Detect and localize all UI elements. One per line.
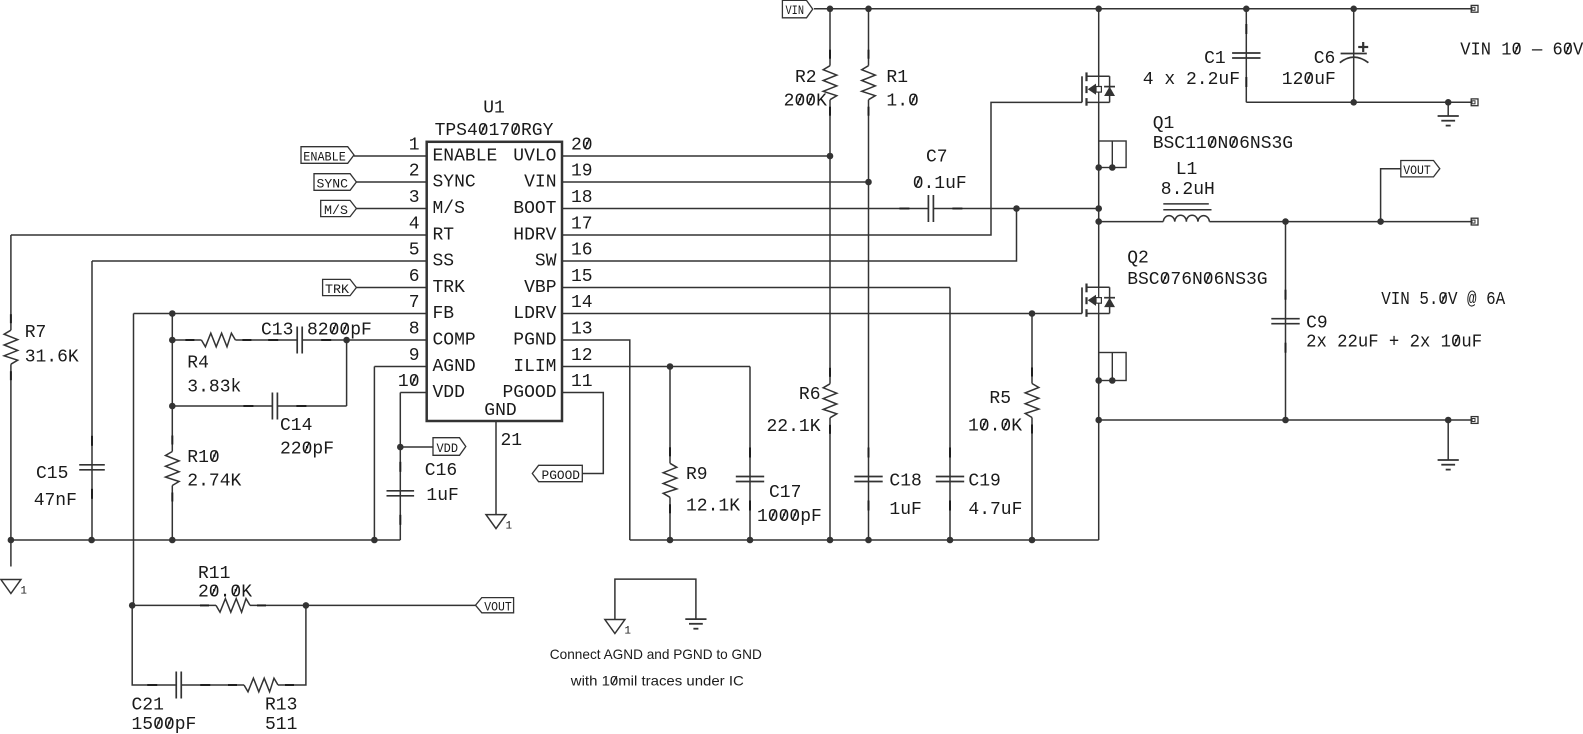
svg-text:C15: C15 [36,464,68,484]
U1 right pin numbers [571,136,593,393]
svg-text:BSC076N06NS3G: BSC076N06NS3G [1127,270,1267,290]
node input gnd junctions [1350,99,1451,106]
node AGND bus junctions [8,537,378,544]
ground AGND note [605,620,632,638]
svg-text:3: 3 [409,188,420,208]
svg-text:15: 15 [571,267,593,287]
port VOUT left [476,598,514,615]
svg-text:L1: L1 [1176,160,1198,180]
svg-text:4: 4 [409,215,420,235]
wire VIN pin 19 [562,181,869,183]
wire output ground stub [1447,420,1449,460]
svg-text:3.83k: 3.83k [187,378,241,398]
port VIN [782,0,812,18]
wire SYNC pin 2 [354,181,426,183]
wire C19 vertical [949,288,951,541]
annotation connect note [550,646,762,689]
wire Q1 source to Q2 drain [1098,102,1100,288]
wire PGOOD pin 11 to flag [562,393,603,474]
svg-text:FB: FB [433,304,455,324]
capacitor C18 [854,448,922,521]
port PGOOD [532,465,582,483]
svg-text:14: 14 [571,293,593,313]
wire AGND bus [11,539,400,541]
wire C7 to SW node [934,208,1099,210]
svg-text:VIN: VIN [524,173,556,193]
wire FB vertical R10 branch [171,314,173,541]
ground AGND 1 [1,580,28,598]
svg-text:7: 7 [409,293,420,313]
svg-text:VDD: VDD [437,442,459,456]
svg-text:VOUT: VOUT [484,601,512,615]
node VIN junctions [827,6,1357,13]
svg-text:C13: C13 [261,321,293,341]
svg-text:PGND: PGND [513,331,556,351]
port M/S [321,200,357,218]
svg-text:17: 17 [571,215,593,235]
capacitor C19 [936,448,1023,521]
svg-text:SS: SS [433,252,455,272]
wire Q1 drain [1098,9,1100,77]
svg-text:PGOOD: PGOOD [542,469,581,483]
resistor R7 [4,314,79,380]
wire UVLO pin 20 [562,155,830,157]
svg-text:R6: R6 [799,385,821,405]
svg-text:11: 11 [571,372,593,392]
wire Q2 source to rail [1098,314,1100,421]
wire pin 21 ground stub [495,421,497,514]
svg-text:21: 21 [501,431,523,451]
svg-text:SYNC: SYNC [317,178,349,192]
wire R11 feedback line [132,604,476,606]
node R11 junctions [129,602,309,609]
svg-text:M/S: M/S [324,204,348,218]
svg-text:C7: C7 [926,148,948,168]
port VDD [433,438,466,456]
svg-text:R13: R13 [265,696,297,716]
resistor R4 [185,333,251,397]
terminal VIN+ [1471,5,1478,12]
resistor R10 [166,436,242,502]
node COMP junction [343,337,350,344]
resistor R2 [784,50,837,116]
wire C17 vertical [749,367,751,541]
capacitor C15 [34,436,105,511]
capacitor C14 [243,393,334,460]
annotation output spec [1381,290,1505,310]
ground input bar [1438,116,1459,126]
svg-text:LDRV: LDRV [513,304,556,324]
svg-text:TRK: TRK [433,278,466,298]
U1 left pin numbers [398,136,420,393]
wire C13 to COMP node [302,339,346,341]
svg-text:VBP: VBP [524,278,556,298]
svg-text:4 x 2.2uF: 4 x 2.2uF [1143,70,1240,90]
wire C1 leads [1245,9,1247,103]
wire R7 bottom lead [10,364,12,540]
svg-text:18: 18 [571,188,593,208]
terminal VIN- [1471,99,1478,106]
Q1 source pads [1095,141,1126,171]
svg-text:VIN 10 — 60V: VIN 10 — 60V [1460,41,1583,61]
capacitor C9 [1271,290,1482,353]
wire R2 R6 column [829,9,831,540]
svg-text:47nF: 47nF [34,491,77,511]
wire C6 leads [1353,9,1355,103]
svg-text:12: 12 [571,346,593,366]
svg-text:2.74K: 2.74K [187,472,241,492]
svg-text:Connect AGND and PGND to GND: Connect AGND and PGND to GND [550,646,762,662]
svg-text:TPS40170RGY: TPS40170RGY [435,121,554,141]
resistor R9 [663,447,740,516]
op-amp U1 TPS40170RGY controller [427,99,562,422]
svg-text:ILIM: ILIM [513,357,556,377]
wire FB vertical to R11 [133,314,135,606]
svg-text:19: 19 [571,162,593,182]
port TRK [323,279,357,297]
svg-text:16: 16 [571,241,593,261]
wire PGND bus [630,539,1099,541]
wire C21 R13 branch [132,605,306,685]
wire M/S pin 3 [354,208,426,210]
wire R4 to C13 [235,339,297,341]
wire TRK pin 6 [354,287,426,289]
capacitor C21 [132,672,211,734]
wire RT pin 4 to R7 [11,234,427,236]
svg-text:8: 8 [409,320,420,340]
svg-text:1500pF: 1500pF [132,715,197,734]
svg-text:ENABLE: ENABLE [303,151,346,165]
capacitor C13 [261,321,372,354]
terminal VOUT+ [1471,218,1478,225]
wire FB to C14 [172,405,272,407]
svg-text:R9: R9 [686,465,708,485]
port SYNC [314,174,356,192]
svg-text:9: 9 [409,346,420,366]
resistor R6 [766,368,836,437]
svg-text:U1: U1 [483,99,505,119]
svg-text:20.0K: 20.0K [198,583,252,603]
svg-text:C6: C6 [1314,49,1336,69]
node UVLO junction [827,153,834,160]
svg-text:511: 511 [265,715,297,734]
wire R1 C18 column [868,9,870,540]
wire C14 to COMP node [277,405,346,407]
svg-text:ENABLE: ENABLE [433,147,498,167]
wire R7 top lead [10,235,12,330]
svg-text:C9: C9 [1306,314,1328,334]
Q2 source pads [1095,353,1126,384]
ground PGND note [685,619,706,629]
svg-text:C17: C17 [769,483,801,503]
svg-text:10.0K: 10.0K [968,417,1022,437]
wire C9 leads [1285,222,1287,420]
capacitor C1 [1143,24,1261,90]
svg-text:R2: R2 [795,68,817,88]
node SW junctions [1013,205,1102,225]
wire VBP pin 15 to C19 [562,287,950,289]
resistor R11 [198,564,266,612]
svg-text:12.1K: 12.1K [686,497,740,517]
wire AGND vertical [373,367,375,541]
transistor Q1 BSC110N06NS3G [1082,72,1293,154]
capacitor C17 [736,448,822,528]
svg-text:1uF: 1uF [889,500,921,520]
svg-text:1: 1 [20,586,27,598]
svg-text:GND: GND [484,401,516,421]
capacitor C16 [387,461,459,525]
node FB junctions [169,310,176,409]
wire VIN rail [814,8,1471,10]
svg-text:R1: R1 [886,68,908,88]
svg-text:PGOOD: PGOOD [502,383,556,403]
wire AGND pin 9 [374,366,426,368]
svg-text:1: 1 [506,521,513,533]
wire PGND riser [1098,420,1100,540]
svg-text:VOUT: VOUT [1403,164,1431,178]
svg-text:BSC110N06NS3G: BSC110N06NS3G [1153,134,1293,154]
node VOUT junctions [1282,218,1384,225]
svg-text:C19: C19 [968,472,1000,492]
svg-text:VDD: VDD [433,383,465,403]
svg-text:R4: R4 [187,354,209,374]
U1 right pin names [502,147,556,404]
svg-text:C18: C18 [889,472,921,492]
svg-text:220pF: 220pF [280,440,334,460]
resistor R13 [228,678,297,734]
svg-text:120uF: 120uF [1282,70,1336,90]
wire COMP node drop [346,340,348,406]
wire AGND-PGND tie bracket [615,579,696,619]
svg-text:RT: RT [433,226,455,246]
svg-text:1: 1 [624,626,631,638]
svg-text:VIN: VIN [786,3,805,18]
svg-text:Q2: Q2 [1127,249,1149,269]
svg-text:2: 2 [409,162,420,182]
svg-text:R5: R5 [989,389,1011,409]
svg-text:6: 6 [409,267,420,287]
U1 pin 21 number [501,431,523,451]
svg-text:C1: C1 [1204,49,1226,69]
svg-text:Q1: Q1 [1153,114,1175,134]
wire L1 to VOUT terminal [1209,221,1471,223]
svg-text:31.6K: 31.6K [25,348,79,368]
wire COMP pin 8 [347,339,427,341]
wire VDD pin 10 [400,392,426,394]
U1 left pin names [433,147,498,404]
svg-text:C16: C16 [425,461,457,481]
svg-text:R10: R10 [187,448,219,468]
annotation VIN range [1460,41,1583,61]
capacitor C7 [899,148,966,223]
wire BOOT pin 18 to C7 [562,208,928,210]
node VIN pin junction [865,179,872,186]
port VOUT right [1401,161,1440,179]
wire ENABLE pin 1 [354,155,427,157]
wire LDRV pin 14 to Q2 gate [562,313,1082,315]
svg-text:C21: C21 [132,696,164,716]
wire R9 vertical [669,367,671,541]
svg-text:HDRV: HDRV [513,226,556,246]
svg-text:1.0: 1.0 [886,92,918,112]
svg-text:TRK: TRK [325,283,350,297]
wire FB pin 7 [134,313,427,315]
wire PGND pin 13 [562,340,630,540]
svg-text:4.7uF: 4.7uF [968,500,1022,520]
wire input ground stub [1447,102,1449,116]
wire R5 vertical [1031,314,1033,541]
inductor L1 [1161,160,1215,222]
ground output bar [1438,460,1459,470]
svg-text:13: 13 [571,320,593,340]
wire FB to R4 [172,339,201,341]
svg-text:UVLO: UVLO [513,147,556,167]
svg-text:C14: C14 [280,416,312,436]
svg-text:1: 1 [409,136,420,156]
node PGND bus junctions [667,537,1036,544]
wire SW to L1 [1099,221,1164,223]
transistor Q2 BSC076N06NS3G [1082,249,1268,317]
svg-text:1uF: 1uF [426,486,458,506]
wire VDD vertical to C16 [399,393,401,541]
port ENABLE [301,147,354,165]
wire C15 vertical [91,261,93,540]
resistor R5 [968,368,1039,437]
resistor R1 [862,50,919,116]
svg-text:COMP: COMP [433,331,476,351]
svg-text:BOOT: BOOT [513,199,556,219]
wire output ground rail [1099,419,1472,421]
node VDD junction [397,444,404,451]
wire VOUT flag stub [1381,169,1401,222]
svg-text:SW: SW [535,252,557,272]
node output gnd junctions [1095,417,1451,424]
svg-text:8200pF: 8200pF [307,321,372,341]
wire ground stub AGND [10,540,12,567]
wire ILIM pin 12 to C17 [562,366,750,368]
capacitor C6 electrolytic [1282,42,1369,90]
svg-text:8.2uH: 8.2uH [1161,180,1215,200]
svg-text:AGND: AGND [433,357,476,377]
ground GND pin21 [486,515,513,533]
svg-text:200K: 200K [784,92,827,112]
wire VDD flag stub [400,446,433,448]
wire SS pin 5 to C15 [92,260,427,262]
svg-text:M/S: M/S [433,199,465,219]
svg-text:with 10mil traces under IC: with 10mil traces under IC [570,673,744,689]
wire HDRV pin 17 to Q1 gate [562,102,1082,235]
wire C1/C6 ground segment [1246,101,1471,103]
svg-text:SYNC: SYNC [433,173,476,193]
node LDRV junction [1029,310,1036,317]
svg-text:22.1K: 22.1K [766,417,820,437]
svg-text:R11: R11 [198,564,230,584]
node ILIM junction [667,363,674,370]
svg-text:R7: R7 [25,323,47,343]
svg-text:1000pF: 1000pF [757,507,822,527]
wire SW pin 16 [562,209,1017,262]
terminal VOUT- [1471,417,1478,424]
svg-text:5: 5 [409,241,420,261]
